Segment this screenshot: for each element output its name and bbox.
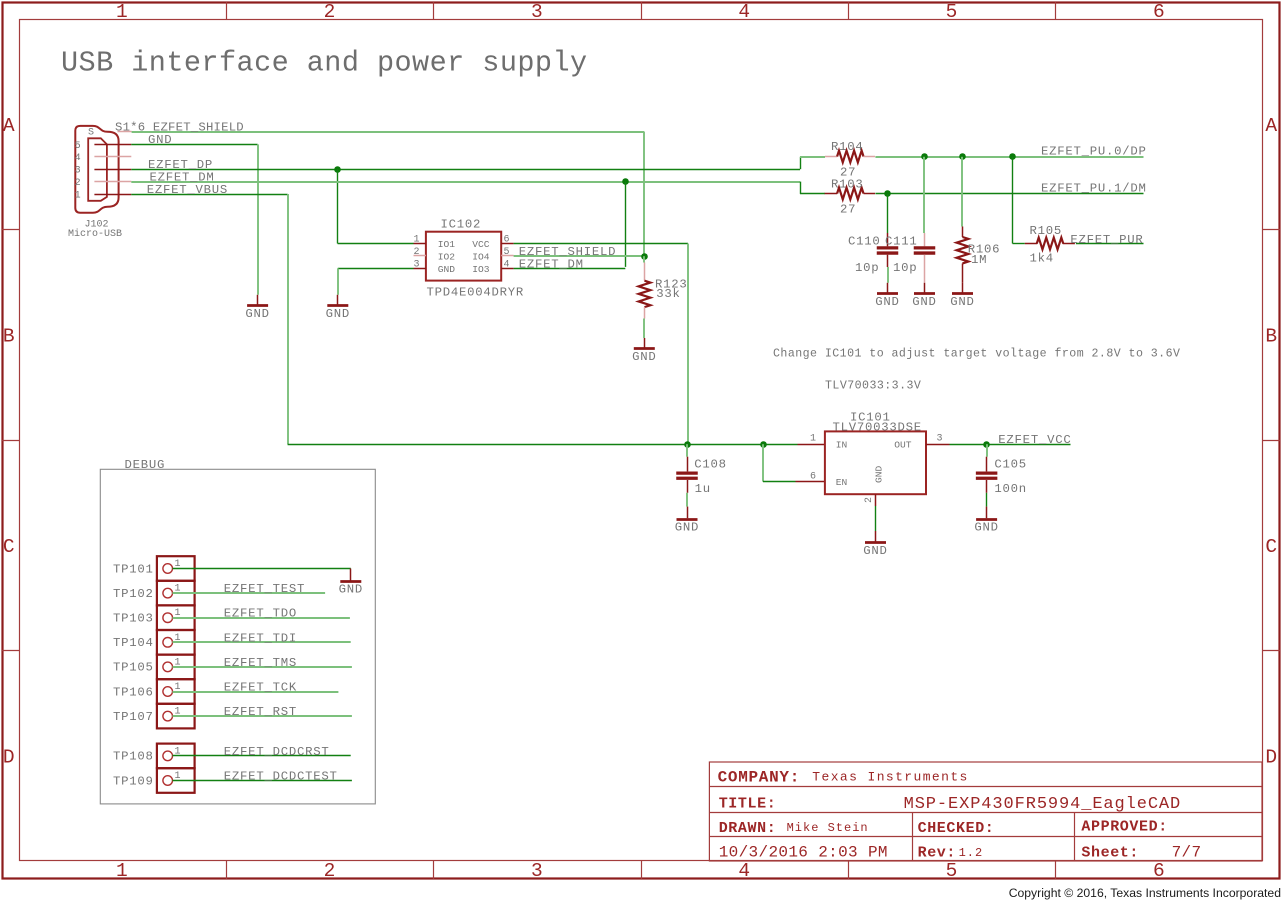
svg-text:10p: 10p [893,261,917,275]
R103 left stub [825,193,838,195]
title block outline [709,762,1262,861]
node junction C111 [921,153,928,160]
svg-text:C: C [1265,536,1277,558]
svg-text:33k: 33k [656,287,680,301]
wire EZFET_VBUS vertical [287,194,289,444]
TP105 pad circle [163,662,173,672]
J102 pin 4 stub [94,156,131,158]
svg-text:MSP-EXP430FR5994_EagleCAD: MSP-EXP430FR5994_EagleCAD [904,795,1182,814]
svg-text:USB interface and power supply: USB interface and power supply [61,47,588,80]
svg-text:TP105: TP105 [113,661,154,675]
testpoint TP107 box [157,704,195,729]
wire TP106 [173,691,339,693]
IC101 pin IN stub [798,444,825,446]
IC102 pin names right [0,0,1,1]
wire TP107 [173,715,352,717]
svg-text:2: 2 [75,178,81,189]
R123 bottom stub [644,307,646,318]
svg-text:IO4: IO4 [472,252,490,263]
node junction R105 [1009,153,1016,160]
capacitor C108 [676,473,698,478]
svg-text:C: C [3,536,15,558]
svg-text:A: A [1265,115,1277,137]
J102 pin labels [0,0,1,1]
svg-text:1: 1 [175,608,181,619]
svg-text:IC102: IC102 [441,217,482,231]
svg-text:EZFET_TEST: EZFET_TEST [224,582,305,596]
IC102 pin 2 stub [414,255,426,257]
resistor R104 [837,151,863,163]
svg-text:DEBUG: DEBUG [125,458,166,472]
svg-text:1: 1 [175,707,181,718]
svg-text:3: 3 [531,1,543,23]
svg-text:VCC: VCC [472,239,490,250]
svg-text:R104: R104 [831,140,864,154]
svg-text:R103: R103 [831,177,864,191]
svg-text:COMPANY:: COMPANY: [718,768,800,786]
title block COMPANY row [0,0,1,1]
svg-text:1k4: 1k4 [1030,252,1054,266]
C111 top stub [924,233,926,246]
node junction R106 [959,153,966,160]
node junction C110 [884,190,891,197]
wire C105 riser [986,444,988,457]
svg-text:1: 1 [175,771,181,782]
wire VCC vertical down to rail [687,244,689,445]
gnd stub c111 [924,283,926,294]
svg-text:3: 3 [75,166,81,177]
title block Sheet cell [0,0,1,1]
wire EZFET_SHIELD from IC102 pin 5 [514,255,645,257]
IC102 pin 4 stub [501,268,513,270]
resistor R106 [957,237,969,263]
svg-text:3: 3 [531,860,543,882]
resistor R103 [837,188,863,200]
svg-text:GND: GND [245,307,269,321]
svg-text:1: 1 [116,860,128,882]
wire EN branch vertical [762,444,764,481]
wire C111 riser [923,157,925,233]
wire R103 input [800,193,825,195]
svg-text:OUT: OUT [894,439,912,450]
R104 right stub [864,156,876,158]
C110 bottom stub [887,255,889,267]
svg-text:1: 1 [175,682,181,693]
svg-text:TP104: TP104 [113,636,154,650]
svg-text:GND: GND [326,307,350,321]
wire TP101 [173,568,351,570]
resistor R105 [1037,238,1063,250]
svg-text:6: 6 [810,471,816,482]
svg-text:Texas Instruments: Texas Instruments [812,770,968,785]
svg-text:Micro-USB: Micro-USB [68,228,122,240]
IC101 pin OUT stub [926,444,950,446]
R123 top stub [644,263,646,281]
svg-text:IN: IN [836,439,848,450]
node EZFET_DP junction [334,166,341,173]
svg-text:EZFET_DCDCTEST: EZFET_DCDCTEST [224,770,338,784]
ground GND r123 [634,347,655,350]
gnd stub r123 [644,338,646,349]
gnd stub c110 [887,283,889,294]
svg-text:R105: R105 [1030,224,1063,238]
wire EZFET_SHIELD vertical [643,132,645,257]
op-amp IC102 box [426,232,501,281]
svg-text:IO3: IO3 [472,264,490,275]
svg-text:3: 3 [413,260,419,271]
wire VCC from IC102 pin 6 [514,243,688,245]
gnd stub ic101 [875,531,877,542]
svg-text:GND: GND [148,133,172,147]
C108 bottom stub [687,480,689,493]
wire R106 riser [961,157,963,227]
svg-text:TP107: TP107 [113,710,154,724]
J102 pin 1 stub [94,194,131,196]
wire C110 riser [887,194,889,233]
IC102 pin 5 stub [501,255,513,257]
svg-text:B: B [1265,326,1277,348]
IC101 pin GND stub [875,494,877,506]
svg-text:4: 4 [75,153,81,164]
svg-text:TPD4E004DRYR: TPD4E004DRYR [427,286,525,300]
wire EZFET_PU.1/DM [875,193,1143,195]
wire R104 input [800,156,825,158]
svg-text:5: 5 [75,141,81,152]
svg-text:GND: GND [950,295,974,309]
svg-text:GND: GND [438,264,456,275]
svg-text:GND: GND [632,350,656,364]
IC101 pin EN stub [796,481,825,483]
node junction rail EN [760,441,767,448]
ground GND c111 [914,292,935,295]
C105 bottom stub [986,480,988,493]
TP106 pad circle [163,687,173,697]
capacitor C111 [914,248,936,253]
R104 left stub [825,156,837,158]
wire C108 riser [686,444,688,457]
DEBUG group box [100,469,375,804]
svg-text:D: D [1265,747,1277,769]
svg-text:CHECKED:: CHECKED: [918,820,995,837]
ground GND c108 [677,518,698,521]
wire EZFET_DP jog up [800,157,802,169]
svg-text:C110: C110 [848,234,881,248]
ground GND ic101 [865,541,886,544]
testpoint TP102 box [157,581,195,606]
svg-text:4: 4 [738,860,750,882]
wire C108 to gnd [686,493,688,507]
svg-text:5: 5 [946,1,958,23]
IC102 pin 1 stub [414,243,426,245]
testpoint TP109 box [157,768,195,793]
wire C111 to gnd [924,255,926,283]
svg-text:1: 1 [175,559,181,570]
gnd stub c108 [687,507,689,519]
svg-text:10p: 10p [855,261,879,275]
svg-text:2: 2 [324,1,336,23]
TP108 pad circle [163,751,173,761]
svg-text:GND: GND [974,521,998,535]
svg-text:Rev:: Rev: [918,844,956,861]
wire EZFET_DP horizontal [131,169,800,171]
svg-text:EZFET_PUR: EZFET_PUR [1070,233,1143,247]
svg-text:7/7: 7/7 [1172,844,1202,862]
wire DP branch vertical to IC102 [337,169,339,243]
ground GND c105 [976,518,997,521]
capacitor C105 [976,473,998,478]
node junction rail C108 [684,441,691,448]
svg-text:1u: 1u [695,482,711,496]
svg-text:1: 1 [175,657,181,668]
svg-text:TP106: TP106 [113,685,154,699]
svg-text:3: 3 [937,434,943,445]
svg-text:C111: C111 [885,234,918,248]
svg-text:GND: GND [675,521,699,535]
svg-text:C108: C108 [694,458,727,472]
J102 pin S stub [118,131,132,133]
wire DM branch vertical to IC102 pin 4 [625,182,627,267]
wire TP103 [173,617,350,619]
svg-text:EZFET_DCDCRST: EZFET_DCDCRST [224,745,330,759]
R105 right stub [1063,243,1075,245]
svg-text:1M: 1M [971,253,987,267]
svg-text:GND: GND [912,295,936,309]
svg-text:S1*6 EZFET_SHIELD: S1*6 EZFET_SHIELD [115,121,244,135]
svg-text:4: 4 [504,260,510,271]
title block TITLE row [0,0,1,1]
resistor R123 [639,281,651,307]
svg-text:EZFET_VBUS: EZFET_VBUS [147,183,228,197]
wire GND vertical [257,144,259,294]
svg-text:EZFET_TDO: EZFET_TDO [224,607,297,621]
svg-text:IO2: IO2 [438,252,456,263]
svg-text:EZFET_DM: EZFET_DM [519,258,584,272]
gnd stub tp101 [350,569,352,582]
svg-text:Sheet:: Sheet: [1081,845,1139,862]
testpoint TP104 box [157,630,195,655]
svg-text:1: 1 [175,746,181,757]
svg-text:TP108: TP108 [113,750,154,764]
gnd stub usb [257,295,259,306]
svg-text:1.2: 1.2 [959,846,984,860]
svg-text:GND: GND [863,544,887,558]
wire TP102 [173,592,326,594]
connector J102 Micro-USB body [75,126,118,213]
wire EN branch horizontal [763,481,796,483]
svg-text:GND: GND [874,465,885,483]
svg-text:C105: C105 [994,458,1027,472]
svg-text:DRAWN:: DRAWN: [719,820,777,837]
frame row letters [0,0,1,1]
wire EZFET_SHIELD horizontal [132,131,645,133]
title block DRAWN cell [0,0,1,1]
TP102 pad circle [163,588,173,598]
wire TP104 [173,641,351,643]
svg-text:EZFET_VCC: EZFET_VCC [998,433,1071,447]
wire C110 to gnd [887,267,889,283]
frame column tick dividers [227,2,1056,879]
svg-text:EZFET_TDI: EZFET_TDI [224,631,297,645]
svg-text:1: 1 [175,584,181,595]
svg-text:6: 6 [1153,1,1165,23]
gnd stub c105 [986,507,988,519]
svg-text:4: 4 [738,1,750,23]
node junction C105 [983,441,990,448]
svg-text:TP109: TP109 [113,774,154,788]
svg-text:APPROVED:: APPROVED: [1081,819,1167,836]
svg-text:6: 6 [1153,860,1165,882]
capacitor C110 [877,248,899,253]
svg-text:Copyright © 2016, Texas Instru: Copyright © 2016, Texas Instruments Inco… [1009,886,1281,900]
wire EZFET_PU.0/DP [875,156,1143,158]
svg-text:1: 1 [75,190,81,201]
ground GND c110 [877,292,898,295]
svg-text:2: 2 [864,497,875,503]
svg-text:GND: GND [875,295,899,309]
testpoint TP106 box [157,679,195,704]
wire TP105 [173,666,352,668]
TP109 pad circle [163,776,173,786]
gnd stub r106 [962,283,964,294]
J102 pin 2 stub [94,181,131,183]
svg-text:TP101: TP101 [113,562,154,576]
wire GND from pin 5 [131,144,257,146]
svg-text:1: 1 [175,633,181,644]
svg-text:A: A [3,115,15,137]
J102 pin 5 stub [94,144,131,146]
wire IC102 pin3 to GND [338,268,414,270]
svg-text:10/3/2016 2:03 PM: 10/3/2016 2:03 PM [719,843,888,861]
svg-text:2: 2 [413,247,419,258]
IC102 pin numbers [0,0,1,1]
svg-text:S: S [88,128,94,139]
svg-text:GND: GND [339,583,363,597]
svg-text:TLV70033:3.3V: TLV70033:3.3V [825,379,921,392]
svg-text:EZFET_PU.0/DP: EZFET_PU.0/DP [1041,145,1147,159]
wire EZFET_DM horizontal [131,181,800,183]
svg-text:B: B [3,326,15,348]
svg-text:TP103: TP103 [113,612,154,626]
TP107 pad circle [163,711,173,721]
R106 top stub [962,227,964,238]
node EZFET_DM junction [622,178,629,185]
R106 bottom stub [962,263,964,282]
svg-text:5: 5 [946,860,958,882]
svg-text:6: 6 [504,235,510,246]
wire EZFET_DM from IC102 pin 4 [514,268,626,270]
svg-text:5: 5 [504,247,510,258]
svg-text:Mike Stein: Mike Stein [787,821,869,835]
C110 top stub [887,233,889,246]
svg-text:100n: 100n [994,482,1027,496]
frame column numbers [0,0,1,1]
svg-text:EZFET_PU.1/DM: EZFET_PU.1/DM [1041,182,1147,196]
svg-text:TLV70033DSE: TLV70033DSE [833,421,922,435]
svg-text:1: 1 [413,235,419,246]
testpoint TP105 box [157,655,195,680]
testpoint TP108 box [157,744,195,769]
wire R105 input [1013,243,1025,245]
svg-text:TITLE:: TITLE: [719,795,777,812]
wire IC102 gnd vertical [337,268,339,294]
wire below SHIELD junction [643,256,645,262]
testpoint TP101 box [157,556,195,581]
TP104 pad circle [163,638,173,648]
IC102 pin names left [0,0,1,1]
svg-text:EZFET_TCK: EZFET_TCK [224,681,297,695]
wire R123 to gnd [643,319,645,339]
gnd stub ic102 [337,295,339,306]
node SHIELD R123 junction [641,253,648,260]
C108 top stub [687,457,689,472]
wire C105 to gnd [986,493,988,507]
svg-text:EZFET_TMS: EZFET_TMS [224,656,297,670]
IC102 pin 6 stub [501,243,513,245]
title block Rev cell [0,0,1,1]
svg-text:IO1: IO1 [438,239,456,250]
wire EZFET_PUR [1076,243,1144,245]
svg-text:D: D [3,747,15,769]
wire EZFET_VBUS horizontal [131,194,287,196]
testpoint TP103 box [157,605,195,630]
wire TP108 [173,755,351,757]
wire TP109 [173,780,352,782]
R105 left stub [1025,243,1038,245]
TP103 pad circle [163,613,173,623]
TP101 pad circle [163,564,173,574]
J102 pin 3 stub [94,169,131,171]
C105 top stub [986,457,988,472]
ground GND ic102 [327,304,348,307]
ground GND tp101 [340,580,361,583]
R103 right stub [864,193,876,195]
wire VBUS rail to IC101 [288,444,798,446]
svg-text:EZFET_RST: EZFET_RST [224,705,297,719]
wire OUT to EZFET_VCC [950,444,1071,446]
IC102 pin 3 stub [414,268,426,270]
frame row tick dividers [2,230,1280,651]
svg-text:2: 2 [324,860,336,882]
wire EZFET_DM jog down [800,182,802,194]
svg-text:1: 1 [116,1,128,23]
voltage regulator IC101 box [825,431,926,494]
svg-text:TP102: TP102 [113,587,154,601]
ground GND r106 [952,292,973,295]
wire DP branch horizontal to IC102 pin 1 [338,243,414,245]
svg-text:1: 1 [810,434,816,445]
wire IC101 gnd [875,506,877,531]
svg-text:Change IC101 to adjust target: Change IC101 to adjust target voltage fr… [773,347,1180,360]
wire R105 riser [1012,157,1014,244]
svg-text:27: 27 [840,203,856,217]
svg-text:EN: EN [836,477,848,488]
ground GND usb [247,304,268,307]
